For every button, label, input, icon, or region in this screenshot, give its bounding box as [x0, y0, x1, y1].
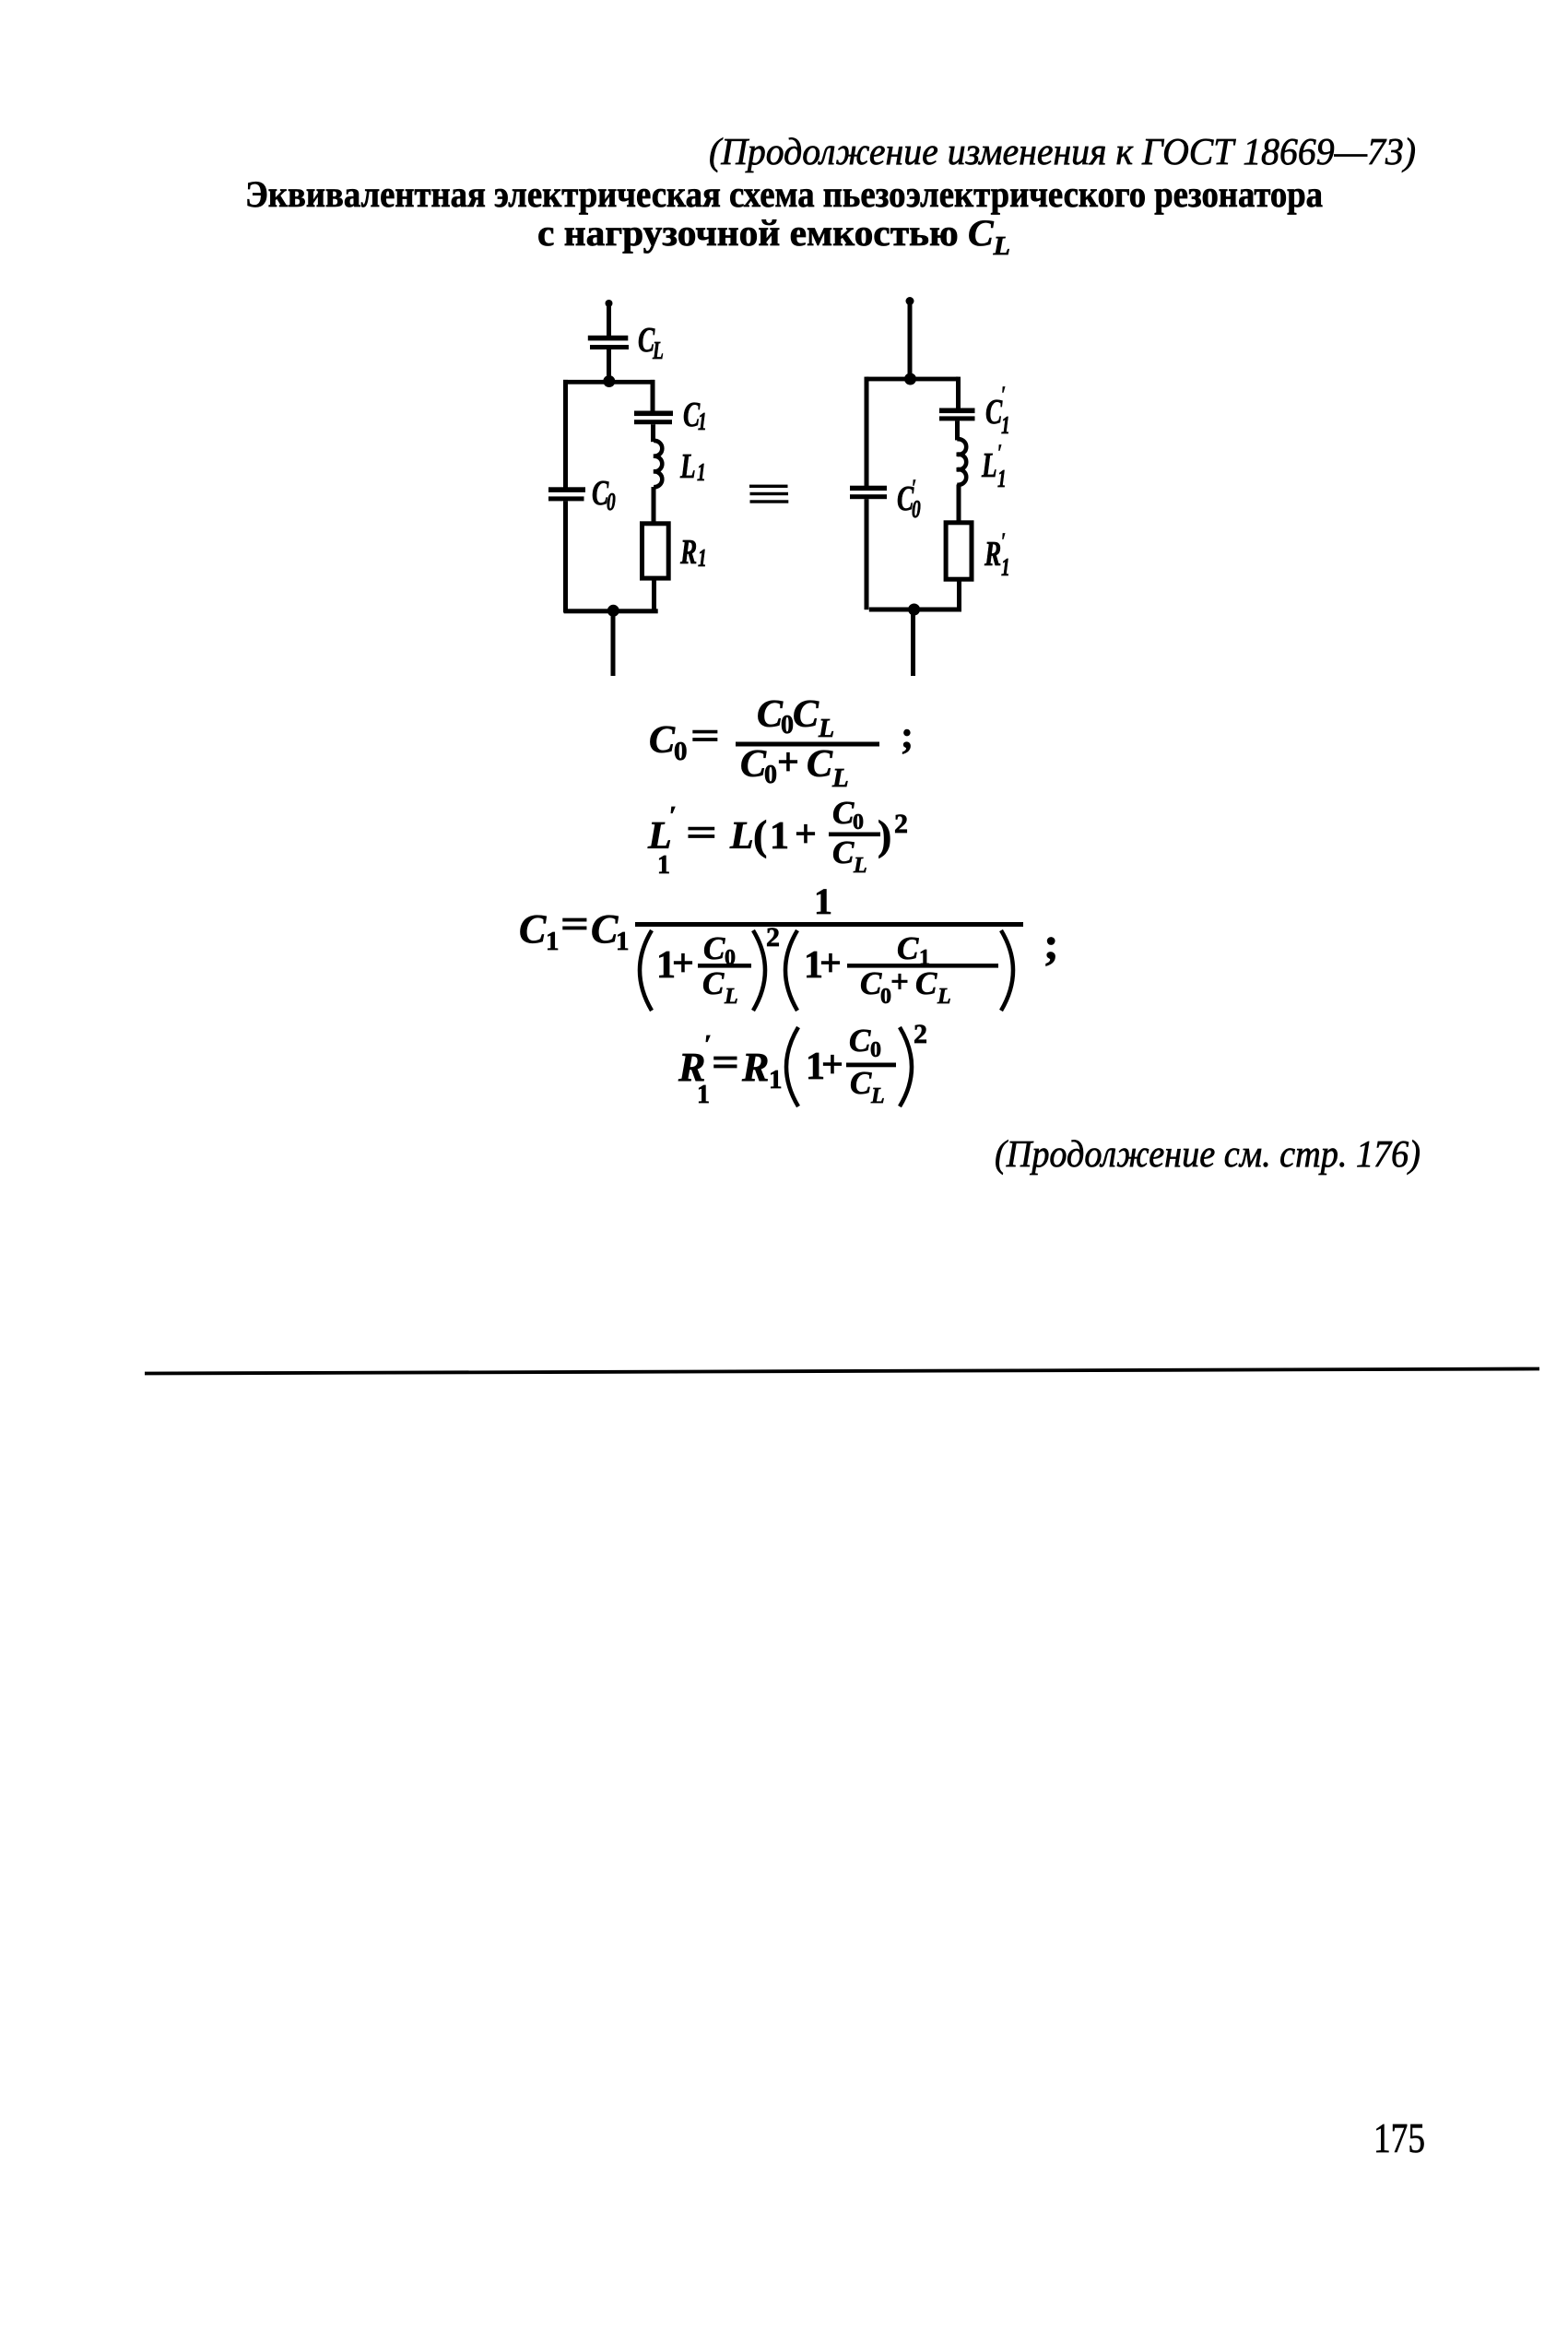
capacitor CL	[588, 336, 629, 349]
svg-text:с нагрузочной емкостью CL: с нагрузочной емкостью CL	[537, 212, 1010, 261]
svg-text:=: =	[690, 716, 720, 758]
label L1p	[981, 440, 1007, 493]
label C0	[592, 474, 616, 516]
svg-text:R: R	[679, 533, 697, 572]
wire: right right branch upper	[956, 377, 961, 408]
capacitor C1	[634, 411, 673, 425]
svg-text:C: C	[649, 719, 676, 762]
svg-text:L: L	[937, 985, 951, 1009]
svg-text:=: =	[686, 812, 717, 855]
resistor R1	[643, 524, 669, 578]
svg-text:R: R	[984, 535, 1001, 574]
svg-text:0: 0	[912, 496, 921, 524]
svg-text:1: 1	[697, 1081, 710, 1109]
wire: right loop top	[867, 377, 959, 382]
svg-text:+: +	[821, 1044, 843, 1086]
svg-text:L: L	[853, 854, 867, 878]
svg-text:C: C	[832, 834, 855, 870]
node: left top junction	[603, 375, 615, 387]
svg-text:1: 1	[546, 927, 560, 956]
node: left bottom junction	[607, 605, 619, 617]
wire: left loop left branch upper	[563, 380, 568, 488]
svg-text:;: ;	[1043, 917, 1059, 969]
svg-text:0: 0	[725, 946, 736, 970]
equivalence sign	[749, 485, 788, 503]
svg-text:1: 1	[657, 851, 670, 880]
label R1p	[984, 528, 1010, 582]
svg-text:=: =	[712, 1040, 739, 1085]
wire: right circuit bottom lead	[911, 611, 915, 676]
svg-text:175: 175	[1373, 2114, 1425, 2161]
wire: L1p to R1p	[957, 485, 961, 524]
page number 175	[1373, 2114, 1425, 2161]
svg-text:′: ′	[704, 1030, 712, 1059]
svg-text:L: L	[831, 763, 849, 793]
svg-text:C: C	[915, 965, 937, 1001]
svg-text:L: L	[729, 815, 754, 858]
svg-text:C: C	[757, 693, 784, 736]
svg-text:C: C	[591, 906, 619, 952]
svg-text:0: 0	[781, 711, 794, 740]
svg-text:L: L	[679, 447, 696, 486]
svg-text:+: +	[890, 964, 909, 1000]
svg-text:C: C	[985, 393, 1003, 432]
wire: left loop top	[563, 380, 654, 385]
wire: C1 to L1	[651, 424, 655, 442]
heading line 1	[245, 173, 1323, 215]
svg-text:L: L	[870, 1084, 885, 1108]
node: right bottom junction	[908, 604, 920, 616]
svg-text:1: 1	[997, 466, 1007, 493]
svg-text:+: +	[795, 813, 817, 856]
svg-text:(: (	[753, 811, 767, 858]
svg-text:1: 1	[616, 927, 630, 956]
node: right top junction	[904, 373, 916, 385]
svg-text:C: C	[793, 693, 819, 736]
svg-text:0: 0	[870, 1038, 881, 1062]
wire: right loop left branch upper	[865, 377, 869, 488]
svg-text:;: ;	[901, 715, 914, 757]
label R1	[679, 533, 707, 573]
svg-text:+: +	[672, 942, 694, 985]
svg-text:′: ′	[1001, 382, 1006, 408]
wire: R1 to bottom	[652, 577, 656, 611]
formula 4: R1' = R1 (1 + C0/CL)^2	[678, 1019, 927, 1109]
label C1	[683, 396, 707, 436]
svg-text:C: C	[740, 743, 767, 786]
label C0p	[897, 475, 921, 524]
wire: right circuit top lead	[906, 297, 914, 380]
wire: left loop bottom	[564, 609, 658, 613]
inductor L1p	[957, 439, 966, 485]
svg-text:0: 0	[607, 489, 616, 516]
svg-text:C: C	[703, 930, 725, 966]
caption: GOST continuation header	[709, 130, 1416, 172]
svg-text:C: C	[832, 795, 855, 831]
svg-text:2: 2	[766, 922, 780, 953]
resistor R1p	[946, 523, 972, 579]
svg-text:1: 1	[770, 815, 789, 858]
caption: continued on page 176	[995, 1132, 1421, 1175]
heading line 2	[537, 212, 1010, 261]
wire: R1p to bottom	[957, 579, 961, 610]
wire: C1p to L1p	[955, 420, 960, 440]
svg-text:C: C	[702, 965, 725, 1001]
svg-text:C: C	[519, 906, 547, 952]
wire: right loop left branch lower	[865, 499, 869, 609]
capacitor C0p	[850, 486, 887, 500]
capacitor C0	[548, 487, 585, 501]
svg-text:=: =	[560, 902, 589, 947]
svg-text:1: 1	[814, 881, 832, 922]
svg-text:C: C	[807, 743, 833, 786]
inductor L1	[654, 441, 662, 487]
svg-text:C: C	[850, 1065, 872, 1101]
svg-text:0: 0	[764, 761, 777, 789]
wire: right loop bottom	[869, 608, 961, 612]
svg-text:L: L	[652, 337, 664, 365]
label L1	[679, 447, 706, 487]
label C1p	[985, 382, 1010, 440]
wire: left circuit top lead	[606, 300, 613, 339]
wire: left circuit bottom lead	[611, 611, 616, 676]
svg-text:C: C	[897, 930, 919, 966]
svg-text:1: 1	[697, 459, 706, 487]
svg-text:L: L	[818, 715, 834, 743]
svg-text:0: 0	[674, 737, 688, 766]
svg-text:2: 2	[894, 809, 908, 839]
svg-text:1: 1	[698, 545, 707, 573]
horizontal rule	[145, 1369, 1539, 1374]
svg-text:2: 2	[914, 1019, 927, 1049]
svg-text:C: C	[860, 965, 882, 1001]
wire: CL to top node	[607, 349, 611, 383]
svg-text:1: 1	[769, 1065, 783, 1095]
svg-text:+: +	[777, 741, 799, 784]
capacitor C1p	[939, 408, 975, 421]
svg-text:′: ′	[997, 440, 1002, 466]
formula 2: L1' = L(1 + C0/CL)^2	[647, 795, 908, 880]
svg-text:L: L	[724, 985, 738, 1009]
svg-text:): )	[878, 811, 891, 858]
formula 3: C1 = C1 * 1/[(1+C0/CL)^2 (1+C1/(C0+CL))]	[519, 881, 1059, 1011]
label CL	[638, 321, 664, 365]
svg-text:1: 1	[1001, 412, 1010, 440]
svg-text:′: ′	[669, 801, 677, 831]
wire: left loop left branch lower	[563, 501, 568, 612]
svg-text:1: 1	[698, 408, 707, 436]
svg-text:L: L	[981, 446, 997, 485]
svg-text:+: +	[819, 942, 842, 985]
svg-text:0: 0	[853, 811, 864, 834]
svg-text:1: 1	[1001, 554, 1010, 582]
svg-text:(Продолжение изменения к ГОСТ: (Продолжение изменения к ГОСТ 18669—73)	[709, 130, 1416, 172]
formula 1: C0 = C0CL/(C0+CL)	[649, 693, 914, 793]
svg-text:R: R	[741, 1045, 769, 1090]
wire: L1 to R1	[652, 487, 656, 525]
svg-text:(Продолжение см. стр. 176): (Продолжение см. стр. 176)	[995, 1132, 1421, 1175]
svg-text:Эквивалентная электрическая сх: Эквивалентная электрическая схема пьезоэ…	[245, 173, 1323, 215]
svg-text:′: ′	[1001, 528, 1006, 554]
wire: left right branch upper	[651, 380, 655, 411]
svg-text:C: C	[849, 1023, 871, 1059]
